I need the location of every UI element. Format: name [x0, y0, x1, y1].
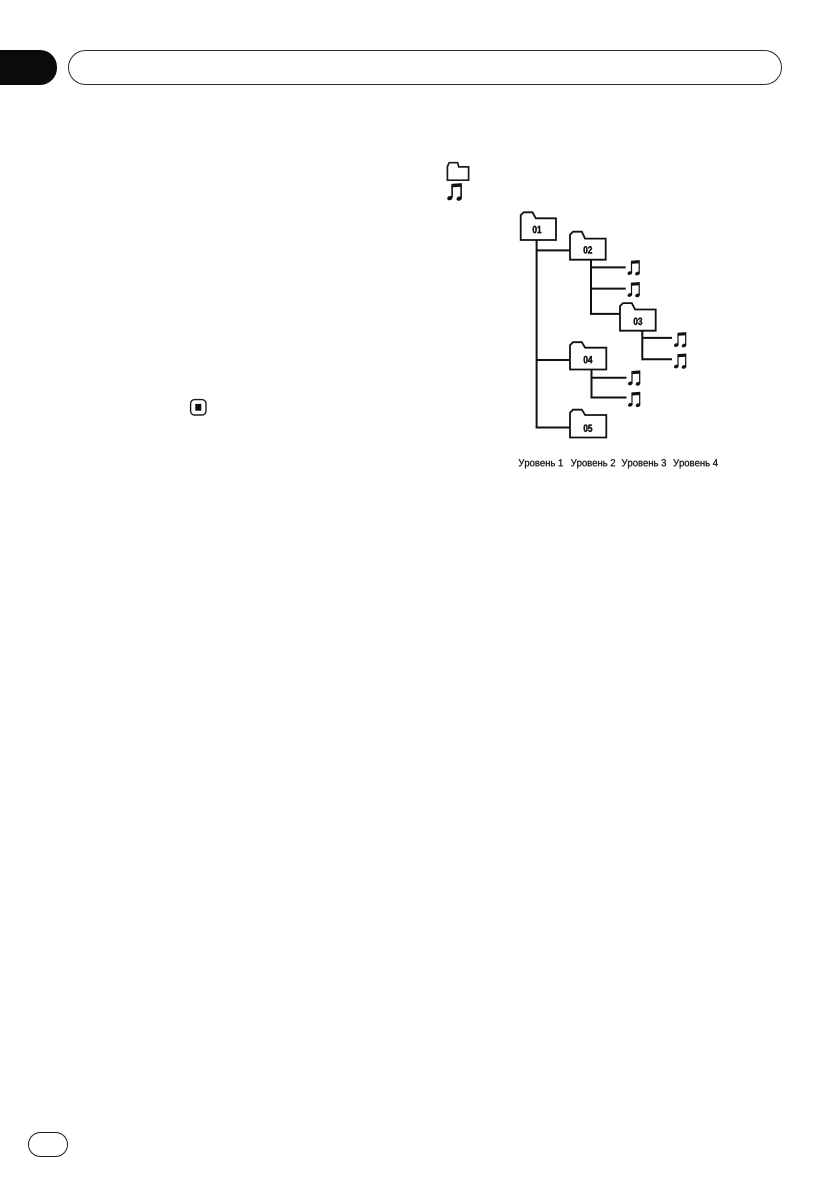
- track note 3: [673, 332, 686, 348]
- folder 05: [570, 410, 606, 438]
- folder 04: [570, 342, 606, 369]
- folder 02: [570, 232, 606, 260]
- trunk wire from folder 01: [536, 240, 538, 428]
- wire to folder 05: [536, 427, 570, 429]
- stop button icon (rounded square with filled square): [189, 398, 208, 417]
- folder icon (legend, outline): [445, 161, 471, 183]
- level label: Уровень 3: [622, 459, 666, 468]
- level label: Уровень 4: [673, 459, 717, 468]
- wire to track note 6: [592, 397, 627, 399]
- track note 5: [627, 370, 640, 386]
- vertical wire under folder 03: [641, 331, 643, 361]
- folder tree diagram: [500, 205, 740, 480]
- track note 2: [627, 282, 640, 298]
- wire to folder 03: [591, 313, 620, 315]
- wire to folder 02: [537, 249, 570, 251]
- wire to folder 04: [537, 359, 570, 361]
- wire to track note 2: [591, 288, 626, 290]
- bottom-left page number pill: [28, 1132, 68, 1157]
- header black side tab: [0, 50, 57, 84]
- folder 03: [620, 303, 656, 331]
- wire to track note 3: [642, 337, 672, 339]
- wire to track note 5: [592, 377, 627, 379]
- level label: Уровень 1: [519, 459, 563, 468]
- wire to track note 4: [642, 358, 672, 360]
- track note 6: [627, 392, 640, 408]
- track note 4: [673, 354, 686, 370]
- vertical wire under folder 04: [591, 369, 593, 398]
- wire to track note 1: [591, 266, 626, 268]
- vertical wire under folder 02: [590, 260, 592, 315]
- header title pill (empty rounded bar): [68, 50, 782, 85]
- folder 01: [521, 212, 556, 240]
- level label: Уровень 2: [571, 459, 615, 468]
- track note 1: [627, 260, 640, 276]
- music-note icon (legend, beamed eighth notes): [445, 182, 465, 202]
